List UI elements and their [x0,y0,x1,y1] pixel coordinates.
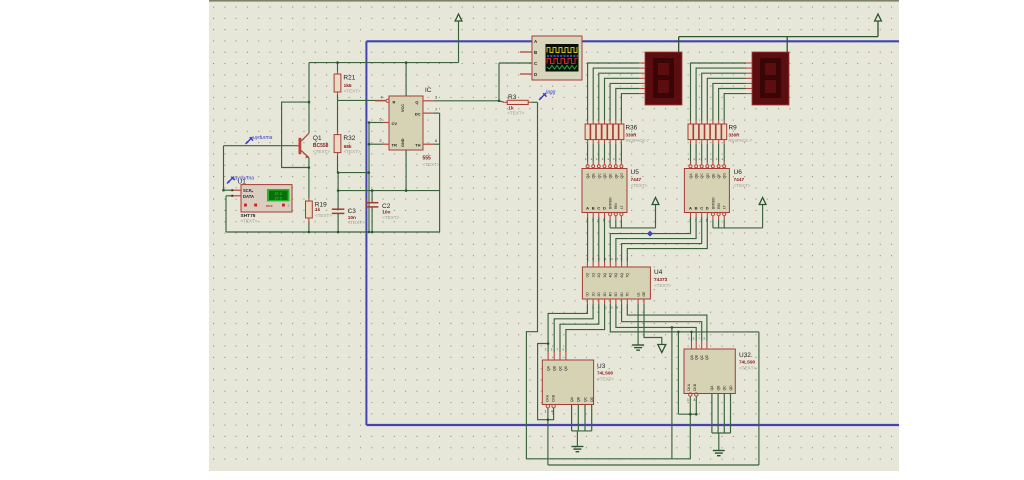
svg-text:0D: 0D [586,292,590,297]
svg-text:QA: QA [710,385,714,391]
svg-text:7: 7 [435,108,437,112]
svg-text:LT: LT [620,205,624,209]
svg-text:GND: GND [401,138,405,147]
svg-text:2: 2 [380,139,382,143]
svg-text:2Q: 2Q [597,273,601,278]
svg-text:QE: QE [711,173,715,179]
svg-text:LE: LE [636,292,640,297]
svg-text:QC: QC [583,396,587,402]
wire base corner down to SCK [223,146,225,191]
net label uydurma (U1) [227,176,254,184]
svg-text:7D: 7D [626,292,630,297]
wire collector loop [282,102,309,167]
svg-text:QD: QD [705,354,709,360]
power arrow (U6) [759,198,766,205]
svg-text:B: B [695,206,698,211]
svg-text:<TEXT>: <TEXT> [507,110,524,115]
svg-text:330R: 330R [729,132,741,137]
svg-text:QD: QD [590,396,594,402]
svg-text:<TEXT>: <TEXT> [739,365,756,370]
svg-text:<TEXT>: <TEXT> [348,220,365,225]
svg-text:R21: R21 [343,75,355,82]
svg-text:<TEXT>: <TEXT> [654,283,671,288]
svg-text:1D: 1D [591,292,595,297]
svg-text:QD: QD [564,365,568,371]
svg-text:TR: TR [392,143,397,148]
svg-text:QD: QD [603,173,607,179]
svg-text:QB: QB [592,173,596,179]
svg-text:DATA: DATA [243,194,254,199]
svg-text:7Q: 7Q [626,273,630,278]
svg-text:3Q: 3Q [603,273,607,278]
svg-text:uydurma: uydurma [235,176,255,182]
junction (blue diamond) [647,231,653,237]
svg-text:U6: U6 [734,169,743,176]
svg-text:<TEXT>: <TEXT> [315,213,332,218]
svg-text:A: A [689,206,692,211]
wire display common rail y=36.6 [679,36,878,38]
svg-text:LT: LT [723,205,727,209]
svg-text:6Q: 6Q [620,273,624,278]
svg-text:7447: 7447 [734,177,745,183]
svg-text:<TEXT>: <TEXT> [597,376,614,381]
svg-text:QF: QF [717,173,721,179]
svg-text:6: 6 [435,139,437,143]
svg-text:5Q: 5Q [614,273,618,278]
wire R21-R32 link [337,100,339,134]
svg-text:CKB: CKB [693,383,697,391]
svg-text:BI/RBO: BI/RBO [711,197,715,209]
svg-text:1: 1 [687,398,689,402]
svg-text:17: 17 [615,257,619,261]
svg-text:6D: 6D [620,292,624,297]
svg-text:C2: C2 [382,203,391,210]
svg-text:RESPACK-7: RESPACK-7 [626,138,650,143]
wire VCC rail y=62.6 [309,62,459,64]
wire DATA to ground rail [226,196,232,232]
svg-text:C: C [700,206,703,211]
svg-text:SCK: SCK [243,188,252,193]
svg-text:▸: ▸ [252,189,254,193]
svg-text:D: D [706,206,709,211]
svg-text:QA: QA [689,173,693,179]
svg-text:R9: R9 [729,125,738,132]
bus wire (blue), left vertical [365,41,367,425]
wire R21 bottom to 555 reset [338,99,387,101]
svg-text:RBI: RBI [717,203,721,209]
svg-text:QC: QC [723,385,727,391]
svg-text:3D: 3D [603,292,607,297]
svg-text:1Q: 1Q [591,273,595,278]
svg-text:lagg: lagg [546,90,556,96]
svg-text:Q: Q [415,99,418,104]
svg-text:5: 5 [380,118,382,122]
svg-text:QD: QD [729,385,733,391]
wire U4 to U32 staircase [610,304,707,341]
wire TH/C3 row y=190.6 [338,190,440,192]
svg-text:4: 4 [381,95,383,99]
svg-text:<TEXT>: <TEXT> [313,149,330,154]
net label uydurma (Q1 base) [246,135,273,144]
svg-text:<TEXT>: <TEXT> [734,183,751,188]
svg-text:37.2: 37.2 [275,192,282,196]
svg-text:D: D [603,206,606,211]
ground (U3) [571,447,583,452]
resistor R32 [334,135,361,173]
wire LE to ground [637,304,639,345]
counter U32 74LS390 [684,337,756,451]
ground triangle (U4 OE) [658,345,666,353]
svg-text:QB: QB [553,365,557,371]
wire U32 clock loop [678,396,696,459]
wire bit line branch [671,327,673,458]
svg-text:QB: QB [695,354,699,360]
svg-text:CKB: CKB [552,394,556,402]
svg-text:QC: QC [597,173,601,179]
svg-text:5D: 5D [614,292,618,297]
svg-text:<TEXT>: <TEXT> [423,162,440,167]
svg-text:QC: QC [558,365,562,371]
wire bit line to clock loop [677,332,679,414]
wire CV/TR vertical rail x=369 [368,123,370,233]
svg-text:74LS90: 74LS90 [597,370,614,375]
svg-text:330R: 330R [626,132,638,137]
power arrow (top right, x=878) [875,14,882,37]
svg-text:RESPACK-7: RESPACK-7 [729,138,753,143]
svg-text:11: 11 [604,257,607,261]
svg-text:2D: 2D [597,292,601,297]
ground (U4 LE) [632,345,644,350]
wire junction dots [222,61,697,421]
svg-text:QB: QB [577,396,581,402]
wire Q1 emitter to R19 [308,158,310,201]
svg-text:3: 3 [435,95,437,99]
svg-text:QF: QF [614,173,618,179]
wire U6 blanking tie [713,205,763,228]
wire OE to ground [644,304,662,345]
wire DC/TH to rail x=439.6 [434,113,440,232]
svg-text:QB: QB [695,173,699,179]
net label lagg [539,90,556,100]
wire bundle display left to R36 [588,63,639,121]
svg-text:RBI: RBI [614,203,618,209]
svg-text:0Q: 0Q [586,273,590,278]
svg-text:7447: 7447 [631,177,642,183]
svg-text:QG: QG [620,173,624,179]
capacitor C3 [332,173,365,232]
svg-text:2: 2 [288,204,290,208]
svg-text:QA: QA [690,354,694,360]
wire scope-C tap [499,63,532,101]
wire Q1 base [224,145,295,147]
svg-text:U5: U5 [631,169,640,176]
svg-text:OE: OE [642,291,646,297]
wire R3 to clock net [528,101,537,103]
oscilloscope [520,36,582,80]
grid dots [213,7,892,460]
svg-text:QG: QG [723,173,727,179]
resistor R21 [334,63,361,101]
7-segment display left [639,37,682,105]
svg-text:C3: C3 [348,208,357,215]
wire Q1 collector vertical [308,63,310,133]
svg-text:4: 4 [551,410,553,414]
svg-text:<TEXT>: <TEXT> [382,215,399,220]
transistor Q1 [295,133,330,158]
svg-text:CKA: CKA [546,394,550,402]
resistor pack R9 [688,121,753,168]
svg-text:R32: R32 [343,135,355,142]
svg-text:<TEXT>: <TEXT> [344,89,361,94]
wire bundle display right to R9 [691,63,747,121]
svg-text:QA: QA [586,173,590,179]
ground (U32) [713,451,725,456]
svg-text:R: R [393,99,396,104]
power arrow (U5) [652,198,659,205]
svg-text:BI/RBO: BI/RBO [609,197,613,209]
wire SCK stub [224,189,233,191]
svg-text:C: C [597,206,600,211]
op-amp-timer IC 555 [369,63,440,191]
svg-text:555: 555 [423,156,432,162]
svg-text:A: A [586,206,589,211]
svg-text:IC: IC [425,87,432,94]
svg-text:QA: QA [546,365,550,371]
resistor R3 [507,94,528,115]
svg-text:CV: CV [392,121,398,126]
sensor U1 SHT75 [231,178,292,223]
wire ground rail y=232 [226,231,440,233]
wire node R32/C3 to TR rail [338,172,369,174]
svg-text:VCC: VCC [401,104,405,112]
wire U6 data staircase to U4 [610,217,707,262]
svg-text:4D: 4D [609,292,613,297]
svg-text:QB: QB [716,385,720,391]
svg-text:27.0: 27.0 [275,197,282,201]
resistor pack R36 [585,121,650,168]
wire U5 data to U4 [588,217,605,262]
svg-text:B: B [592,206,595,211]
svg-text:TH: TH [415,143,420,148]
svg-text:U32.: U32. [739,352,753,359]
svg-text:74LS90: 74LS90 [739,359,756,364]
svg-text:QA: QA [570,396,574,402]
svg-text:74373: 74373 [654,277,668,283]
resistor R19 [306,201,333,232]
svg-text:QD: QD [706,173,710,179]
wire Q to R3 [434,101,508,103]
svg-text:<TEXT>: <TEXT> [631,183,648,188]
svg-text:<TEXT>: <TEXT> [241,219,258,224]
svg-text:B: B [534,50,537,55]
wire U3 QA to CKB loop [538,344,554,420]
7-segment display right [746,37,789,105]
svg-text:QE: QE [609,173,613,179]
wire U3 CKA down [547,408,549,465]
svg-text:4Q: 4Q [609,273,613,278]
capacitor C2 [366,191,400,232]
bus wire (blue), top run [366,40,899,42]
svg-text:QC: QC [700,354,704,360]
svg-text:14: 14 [609,257,613,261]
wire U4 to U3 staircase [548,304,605,352]
bus wire (blue), bottom run [366,424,899,426]
wire U32 cascade to U3 clock [548,332,759,465]
counter U3 74LS390 [542,348,614,447]
power arrow (top, x=458.5) [455,14,462,63]
svg-text:<TEXT>: <TEXT> [344,149,361,154]
svg-text:1: 1 [545,410,547,414]
svg-text:R36: R36 [626,125,638,132]
svg-text:vcc: vcc [266,203,273,208]
svg-text:Q1: Q1 [313,135,322,142]
svg-text:D: D [534,72,537,77]
svg-text:U3: U3 [597,363,606,370]
svg-text:uydurma: uydurma [253,135,273,141]
wire U5 blanking tie [610,205,655,228]
latch U4 74373 [582,257,671,310]
svg-text:DC: DC [415,112,421,117]
svg-text:U4: U4 [654,269,663,276]
svg-text:4: 4 [694,398,696,402]
svg-text:QC: QC [700,173,704,179]
wire clock net vertical [526,102,690,459]
decoder U6 7447 [684,169,751,223]
svg-text:CKA: CKA [687,383,691,391]
decoder U5 7447 [582,169,648,223]
